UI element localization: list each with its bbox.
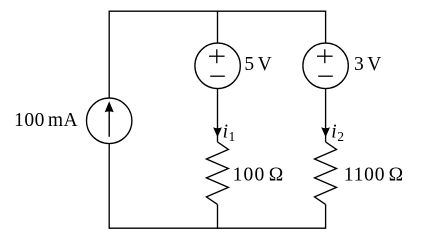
- resistor R1 zigzag: [206, 142, 228, 205]
- svg-text:3V: 3V: [354, 54, 381, 75]
- current source I1 circle: [87, 98, 132, 143]
- current arrow i2 head: [321, 127, 330, 137]
- current source arrow shaft: [108, 110, 110, 137]
- minus sign of V2: [318, 75, 333, 77]
- svg-text:100mA: 100mA: [14, 110, 78, 131]
- svg-text:i2: i2: [331, 122, 344, 145]
- wire left branch upper: [108, 11, 110, 99]
- wire right branch mid: [325, 89, 327, 142]
- wire right branch upper: [325, 11, 327, 44]
- svg-text:5V: 5V: [244, 54, 271, 75]
- current source arrowhead: [105, 101, 114, 112]
- svg-text:100Ω: 100Ω: [233, 165, 285, 186]
- wire middle branch mid: [217, 89, 219, 142]
- voltage source V2 circle: [303, 43, 348, 88]
- plus sign of V2: [317, 49, 333, 63]
- wire bottom: [109, 227, 325, 229]
- svg-text:i1: i1: [223, 122, 236, 145]
- voltage source V1 circle: [195, 43, 240, 88]
- svg-text:1100Ω: 1100Ω: [344, 164, 404, 185]
- current arrow i1 head: [213, 127, 222, 137]
- wire middle branch upper: [217, 11, 219, 44]
- resistor R2 zigzag: [315, 142, 337, 205]
- wire right branch lower: [325, 204, 327, 228]
- wire top: [109, 10, 325, 12]
- plus sign of V1: [209, 49, 225, 63]
- wire middle branch lower: [217, 204, 219, 228]
- minus sign of V1: [210, 75, 225, 77]
- wire left branch lower: [108, 144, 110, 229]
